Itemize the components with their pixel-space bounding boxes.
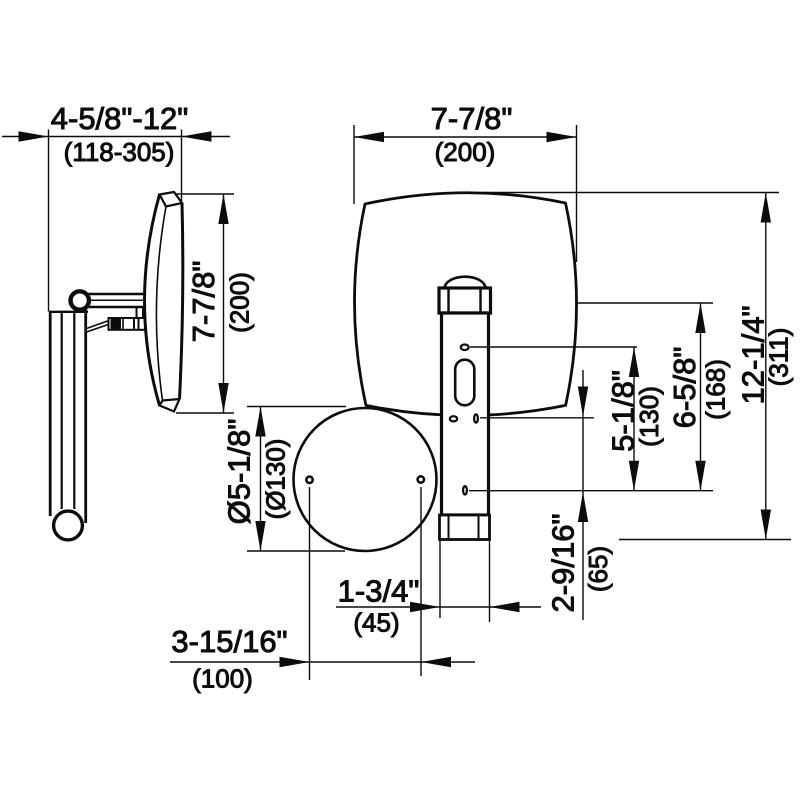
side view mirror bottom facet <box>160 399 180 412</box>
hinge cap lines <box>134 318 139 331</box>
extension line mirror back plane <box>181 130 183 203</box>
arrow left 1-3/4 <box>410 602 440 612</box>
hinge bracket verticals <box>137 308 144 319</box>
svg-text:(45): (45) <box>353 608 399 638</box>
svg-text:2-9/16": 2-9/16" <box>546 514 581 613</box>
dimension 4-5/8"-12" left arrow <box>19 131 49 141</box>
side view mirror height extension top <box>176 193 234 195</box>
arrow left of front width <box>354 132 384 142</box>
arrow right of front width <box>547 132 577 142</box>
sensor slot stadium <box>455 360 474 406</box>
dimension 3-15/16 line <box>170 661 475 663</box>
dimension 5-1/8 line <box>633 347 635 491</box>
svg-text:(118-305): (118-305) <box>64 137 175 167</box>
arrow bottom 6-5/8 <box>695 461 705 491</box>
svg-text:(168): (168) <box>701 359 731 420</box>
extension line column bottom right <box>619 539 791 541</box>
wall plate circle <box>294 408 437 551</box>
svg-text:1-3/4": 1-3/4" <box>338 574 420 609</box>
dimension plate diameter line <box>260 407 262 552</box>
dimension plate diameter extension top <box>247 406 346 408</box>
collar inner line left <box>447 289 449 312</box>
dimension 2-9/16 line <box>582 370 584 620</box>
sensor column dome cap <box>445 277 486 289</box>
extension line mirror right edge <box>576 125 578 262</box>
arrow upper 2-9/16 <box>578 387 588 417</box>
collar inner line right <box>479 289 481 312</box>
hinge black segment <box>111 318 122 330</box>
leader line middle hole <box>469 490 713 492</box>
wall post outer left line <box>49 311 52 516</box>
arrow left 3-15/16 <box>280 657 310 667</box>
dimension 7-7/8 side height line <box>223 194 225 413</box>
svg-text:(200): (200) <box>435 137 496 167</box>
hinge line 1 <box>122 318 124 330</box>
extension line column left bottom <box>439 541 441 618</box>
arrow right 1-3/4 <box>490 602 520 612</box>
arm upper bar inner line <box>88 299 145 301</box>
dimension 6-5/8 line <box>700 303 702 491</box>
extension line mirror top right <box>483 192 779 194</box>
power cable <box>87 321 110 333</box>
dimension 1-3/4 line <box>336 606 541 608</box>
wall post top edge <box>49 311 88 313</box>
wall post inner line 2 <box>73 311 75 509</box>
foot inner line right <box>478 515 480 540</box>
dimension 4-5/8"-12" horizontal line <box>2 136 230 138</box>
lower right hole <box>474 414 478 422</box>
extension line right screw hole <box>420 487 422 676</box>
arrow top 5-1/8 <box>629 347 639 377</box>
svg-text:Ø5-1/8": Ø5-1/8" <box>222 419 257 525</box>
svg-text:(Ø130): (Ø130) <box>261 439 291 520</box>
side view mirror top facet <box>160 192 183 207</box>
ball joint ring <box>71 291 89 309</box>
sensor column collar <box>439 288 491 313</box>
arrow top diameter <box>255 407 265 437</box>
wall post bottom cap ring <box>54 511 83 540</box>
arrow bottom 5-1/8 <box>629 461 639 491</box>
svg-text:(100): (100) <box>192 664 253 694</box>
arrow right 3-15/16 <box>421 657 451 667</box>
foot inner line left <box>448 515 450 540</box>
top small hole <box>461 345 469 351</box>
column foot <box>440 515 490 540</box>
left screw hole <box>306 477 312 483</box>
arrow lower 2-9/16 <box>578 492 588 522</box>
svg-text:4-5/8"-12": 4-5/8"-12" <box>51 101 188 136</box>
arrow bottom diameter <box>255 521 265 551</box>
arrow top 12-1/4 <box>761 193 771 223</box>
side view mirror height extension bottom <box>176 412 234 414</box>
arrow bottom 12-1/4 <box>761 510 771 540</box>
dimension 7-7/8" front width line <box>354 136 577 138</box>
right screw hole <box>418 476 424 482</box>
extension line left screw hole <box>309 487 311 680</box>
svg-text:(65): (65) <box>583 546 613 592</box>
arm upper bar top edge <box>86 293 145 296</box>
extension line wall plane <box>48 130 50 312</box>
sensor column body <box>442 313 489 515</box>
svg-text:(130): (130) <box>634 386 664 447</box>
front view mirror squircle <box>354 193 576 416</box>
dimension 12-1/4 line <box>765 193 767 540</box>
arrow top 6-5/8 <box>695 303 705 333</box>
leader line lower right hole <box>480 417 594 419</box>
wall post inner line 1 <box>61 311 63 509</box>
side view mirror back edge <box>180 203 183 399</box>
arrow bottom of side height <box>218 383 228 413</box>
lower left hole <box>450 416 457 421</box>
extension line column right bottom <box>489 541 491 622</box>
svg-text:7-7/8": 7-7/8" <box>431 101 513 136</box>
dimension 4-5/8"-12" right arrow <box>182 131 212 141</box>
middle hole <box>463 486 467 494</box>
arrow top of side height <box>218 194 228 224</box>
extension line collar top <box>576 302 713 304</box>
svg-text:7-7/8": 7-7/8" <box>186 261 221 343</box>
svg-text:(311): (311) <box>764 328 794 387</box>
wall post outer right line <box>84 308 87 523</box>
side view mirror glass inner arc <box>156 207 166 401</box>
leader line top small hole <box>470 346 637 348</box>
arm upper bar bottom edge <box>86 306 145 309</box>
svg-text:(200): (200) <box>225 272 255 333</box>
hinge cylinder body <box>109 318 146 330</box>
extension line mirror left edge <box>353 125 355 204</box>
svg-text:6-5/8": 6-5/8" <box>667 347 702 429</box>
side view mirror glass front arc <box>145 195 160 406</box>
dimension plate diameter extension bottom <box>247 550 345 552</box>
svg-text:3-15/16": 3-15/16" <box>171 624 287 659</box>
